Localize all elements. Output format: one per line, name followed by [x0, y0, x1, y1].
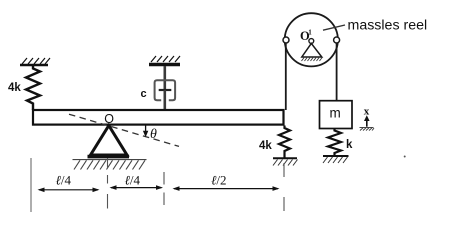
damper cylinder (open at bottom centre) [155, 80, 176, 100]
rope from pulley right pin to mass [336, 43, 338, 101]
pulley support hatching [302, 58, 323, 61]
spring 4k (left) [26, 65, 40, 110]
spring 4k (right, under beam end) [279, 126, 290, 158]
stray mark [404, 156, 406, 158]
dimension extension line 3 (x=164, dashed) [163, 172, 165, 205]
dimension arrow l/4 (first) [38, 188, 100, 193]
reference hatch under x arrow [360, 128, 375, 131]
svg-text:k: k [346, 139, 353, 151]
leader line to label [323, 25, 345, 30]
svg-text:4k: 4k [259, 140, 272, 152]
svg-text:4k: 4k [8, 82, 21, 94]
pivot support triangle [91, 126, 128, 156]
dimension arrow l/4 (second) [110, 185, 164, 190]
ground hatching under spring k [323, 157, 348, 163]
coordinate x arrow (up) [364, 115, 370, 127]
svg-text:ℓ/2: ℓ/2 [211, 173, 227, 188]
svg-text:c: c [141, 88, 147, 100]
pivot base bar [88, 155, 130, 159]
ceiling support (middle, above damper) [149, 56, 180, 65]
pulley support triangle [302, 43, 322, 57]
svg-text:1: 1 [308, 29, 312, 37]
dimension extension line 4 (x=284, dashed) [283, 163, 285, 211]
damper c : rod from ceiling to piston, piston plate, rod to beam [159, 66, 172, 110]
ground line under right 4k spring [273, 157, 297, 159]
pulley centre pin circle [309, 39, 314, 44]
rope from beam to pulley left pin [285, 43, 287, 110]
svg-text:ℓ/4: ℓ/4 [125, 173, 141, 188]
svg-text:massles reel: massles reel [348, 18, 428, 34]
ceiling support (left, above spring 4k) [20, 58, 50, 65]
ground hatching under right 4k spring [273, 160, 298, 166]
svg-text:θ: θ [150, 127, 157, 142]
dimension extension line 1 (x=31) [30, 158, 32, 212]
spring k (under mass) [328, 129, 341, 156]
ground line under pivot [73, 159, 147, 161]
dimension arrow l/2 [173, 186, 280, 191]
pulley left pin circle [283, 37, 289, 43]
ground hatching under pivot [74, 160, 145, 169]
beam (lever bar) [33, 110, 284, 125]
pulley (massless reel) circle [285, 13, 338, 66]
mass m block [320, 101, 353, 129]
dimension extension line 2 (x=107.5, dashed) [107, 159, 109, 209]
svg-text:ℓ/4: ℓ/4 [56, 173, 72, 188]
theta angle arrow [143, 126, 148, 138]
pulley right pin circle [334, 37, 340, 43]
dashed line (rotated beam position through pivot) [69, 114, 179, 146]
svg-text:m: m [330, 106, 341, 121]
ground line under spring k [323, 155, 349, 157]
